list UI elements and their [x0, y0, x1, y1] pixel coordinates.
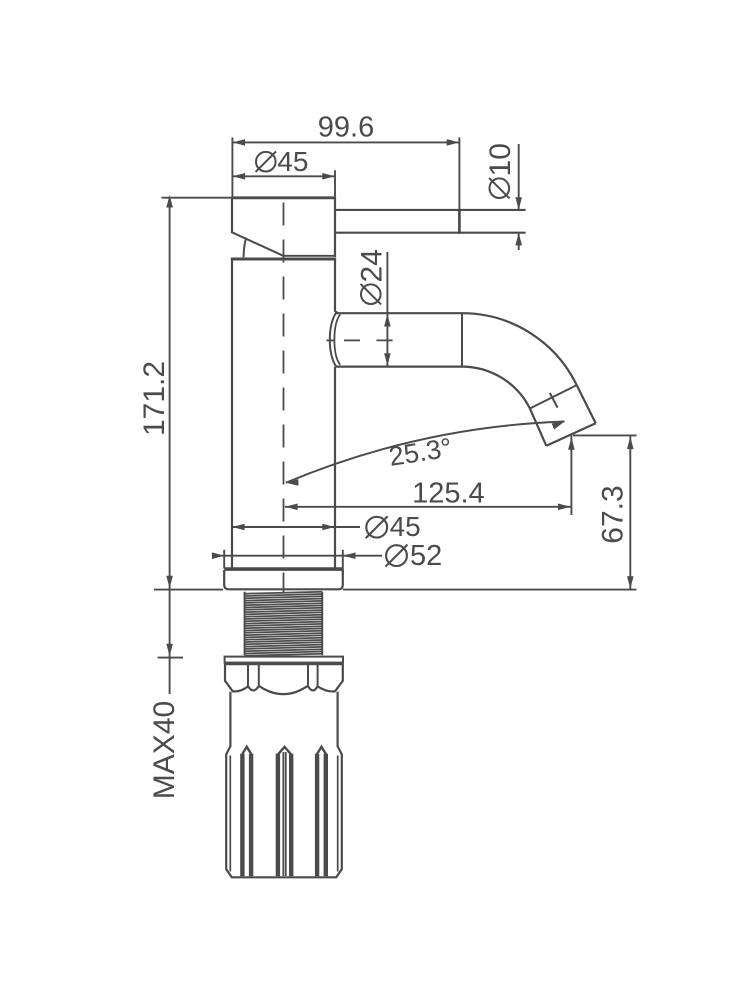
svg-text:171.2: 171.2: [138, 361, 171, 436]
svg-text:125.4: 125.4: [412, 478, 485, 510]
svg-text:45: 45: [277, 146, 308, 177]
svg-text:MAX40: MAX40: [148, 701, 181, 799]
svg-text:67.3: 67.3: [597, 485, 630, 543]
svg-text:99.6: 99.6: [318, 111, 374, 143]
svg-text:24: 24: [355, 249, 388, 282]
svg-text:25.3°: 25.3°: [387, 432, 454, 472]
svg-text:10: 10: [484, 143, 517, 176]
svg-text:45: 45: [390, 511, 421, 542]
svg-text:52: 52: [410, 540, 442, 572]
